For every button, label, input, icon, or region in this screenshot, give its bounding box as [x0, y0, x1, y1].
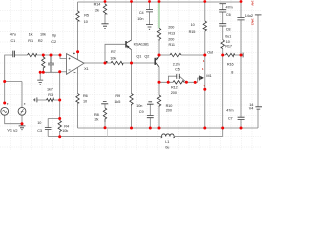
svg-text:10k: 10k: [40, 33, 46, 37]
svg-text:1: 1: [202, 67, 204, 71]
svg-text:C4: C4: [139, 11, 144, 15]
capacitor C9: [147, 102, 154, 118]
resistor R3: [47, 99, 54, 102]
svg-text:1k5: 1k5: [114, 100, 120, 104]
resistor R2: [42, 55, 45, 72]
svg-text:R8: R8: [94, 113, 99, 117]
svg-text:10n: 10n: [136, 104, 142, 108]
resistor R16: [226, 53, 235, 56]
node C9 bottom: [149, 127, 152, 130]
svg-text:R10: R10: [166, 104, 173, 108]
wire C6 C8 R17 column: [222, 4, 224, 55]
node R4 bottom: [58, 135, 61, 138]
svg-text:R2: R2: [38, 39, 43, 43]
svg-text:X1: X1: [84, 67, 88, 71]
node R14 top: [104, 0, 107, 3]
svg-text:10k: 10k: [62, 129, 68, 133]
node ground G1 junction: [39, 71, 42, 74]
node C2 top: [50, 54, 53, 57]
ground below C4: [146, 25, 153, 30]
svg-text:C3: C3: [37, 129, 42, 133]
node R16 left: [221, 54, 224, 57]
resistor R13: [157, 28, 160, 41]
svg-text:200: 200: [168, 38, 174, 42]
resistor R1: [28, 53, 37, 56]
svg-text:14V: 14V: [251, 0, 255, 6]
wire C4 stub: [149, 2, 151, 24]
wire rail A to rail B link: [107, 128, 109, 137]
wire inverting node vertical: [59, 72, 61, 119]
svg-text:R12: R12: [171, 85, 178, 89]
svg-text:200: 200: [166, 109, 172, 113]
svg-text:2.2n: 2.2n: [173, 62, 180, 66]
resistor R12: [173, 81, 184, 84]
svg-text:47m: 47m: [226, 109, 233, 113]
node cap14 bottom: [240, 127, 243, 130]
capacitor C7: [238, 117, 245, 119]
svg-text:R1: R1: [28, 39, 33, 43]
wire green highlighted net: [158, 3, 160, 29]
inductor L1: [161, 134, 175, 138]
capacitor C5: [177, 74, 180, 79]
node M1 bottom pin: [203, 88, 206, 91]
wire R11 row: [159, 54, 205, 56]
wire R14 stub: [104, 2, 106, 24]
svg-text:8: 8: [231, 70, 233, 74]
svg-text:47m: 47m: [226, 5, 233, 9]
svg-text:1k: 1k: [29, 33, 33, 37]
node green net top: [158, 0, 161, 3]
wire op-amp V- column through R6 to rail A: [77, 68, 79, 129]
node input tee at y81: [3, 80, 6, 83]
svg-text:+: +: [203, 84, 205, 88]
wire C5 bypass loop: [168, 76, 186, 82]
wire Q2 collector down: [158, 67, 160, 82]
svg-text:L1: L1: [165, 140, 169, 144]
node Q1 collector top: [130, 0, 133, 3]
node M1 column bottom: [203, 127, 206, 130]
node R15 top: [203, 0, 206, 3]
wire output column x222 to rail A: [222, 55, 224, 128]
wire R1 to node B and op-amp +in: [37, 55, 67, 59]
svg-text:R4: R4: [64, 124, 69, 128]
wire node to Q2 base: [132, 62, 155, 64]
wire R9 leads: [131, 63, 133, 128]
wire Q2 emitter to node: [158, 55, 160, 56]
svg-text:C5: C5: [175, 67, 180, 71]
wire R15 column: [204, 2, 206, 55]
node V1 top pin: [3, 102, 6, 105]
op-amp X1: [67, 53, 85, 75]
wire supply top bus: [78, 1, 242, 3]
voltage source V2: [18, 103, 26, 115]
svg-text:C6: C6: [226, 13, 231, 17]
node R2 bottom: [42, 71, 45, 74]
svg-text:R7: R7: [111, 50, 116, 54]
svg-text:M1: M1: [206, 74, 211, 78]
wire Q1 collector to top bus: [131, 2, 133, 40]
resistor R14: [103, 4, 106, 14]
svg-text:R11: R11: [169, 43, 175, 47]
resistor R15: [203, 21, 206, 31]
svg-text:C7: C7: [228, 117, 233, 121]
svg-text:200: 200: [168, 25, 174, 29]
svg-text:10: 10: [191, 23, 195, 27]
wire rail A negative bus: [78, 109, 259, 128]
svg-text:1: 1: [203, 59, 205, 63]
node C7 bottom: [221, 127, 224, 130]
wire R5 column to op-amp V+: [77, 2, 79, 60]
svg-text:V1: V1: [7, 129, 11, 133]
svg-text:Out: Out: [207, 51, 214, 55]
resistor R8: [103, 108, 106, 122]
capacitor C4: [146, 10, 153, 12]
wire C1 to R1: [15, 54, 28, 56]
node op-amp output: [104, 62, 107, 65]
wire R16 row: [223, 54, 243, 56]
node -in junction: [58, 70, 61, 73]
svg-text:R16: R16: [227, 63, 234, 67]
transistor Q2: [155, 56, 159, 67]
resistor R5: [76, 11, 79, 21]
wire V4 column: [257, 15, 259, 107]
svg-text:0p: 0p: [52, 34, 56, 38]
capacitor feedback end bar: [33, 97, 37, 102]
svg-text:R9: R9: [115, 94, 120, 98]
ground below R14: [101, 24, 108, 29]
svg-text:Q2: Q2: [144, 55, 149, 59]
node Q2 emitter R13: [158, 54, 161, 57]
capacitor 14u2: [237, 17, 244, 20]
resistor R10: [157, 95, 160, 107]
terminal bar V4 top: [255, 14, 262, 16]
resistor R6: [76, 94, 79, 104]
wire C7 column x241: [240, 2, 242, 128]
svg-text:10: 10: [37, 121, 41, 125]
resistor R11: [170, 53, 181, 56]
wire R4 stubs: [59, 119, 61, 137]
svg-text:10: 10: [84, 20, 88, 24]
node R10 bottom: [158, 127, 161, 130]
capacitor C6: [219, 10, 226, 12]
wire output to Q1 base: [105, 44, 126, 63]
wire input net V1 to C1: [5, 55, 13, 103]
wire C9 stem: [149, 104, 151, 128]
node feedback bottom: [58, 117, 61, 120]
wire R7 leads: [105, 62, 132, 64]
node R9 bottom: [130, 127, 133, 130]
wire R13 bottom lead: [158, 41, 160, 55]
resistor R17: [221, 40, 224, 49]
terminal tick right of R16 row: [242, 53, 244, 58]
node R12 row right: [194, 81, 197, 84]
ground near R2: [37, 80, 43, 85]
svg-text:2k: 2k: [95, 118, 99, 122]
node R16 right: [240, 54, 243, 57]
node R8 bottom: [104, 126, 107, 129]
svg-text:R6: R6: [83, 94, 88, 98]
svg-text:47u: 47u: [10, 33, 16, 37]
wire R3 row: [37, 99, 60, 101]
wire R2/C2 bottom row: [40, 72, 60, 80]
svg-text:R14: R14: [94, 2, 101, 6]
node R3 right: [58, 99, 61, 102]
node R11 right: [203, 54, 206, 57]
resistor R7: [111, 61, 123, 64]
svg-text:C9: C9: [139, 110, 144, 114]
net mark near R7: [106, 61, 108, 63]
svg-text:Q1: Q1: [136, 55, 141, 59]
svg-text:V2: V2: [13, 129, 17, 133]
svg-text:R3: R3: [48, 93, 53, 97]
svg-text:10k: 10k: [110, 57, 116, 61]
capacitor C1: [13, 51, 15, 58]
transistor Q1: [126, 40, 131, 50]
node cap14 top: [240, 0, 243, 3]
voltage source V1: [1, 103, 9, 115]
svg-text:0u1: 0u1: [225, 34, 231, 38]
node C5 left: [167, 81, 170, 84]
svg-text:C1: C1: [11, 39, 16, 43]
node R12 left: [158, 81, 161, 84]
wire op-amp output: [84, 62, 105, 64]
resistor R4: [58, 121, 61, 133]
svg-text:R17: R17: [225, 44, 232, 48]
wire R8 stem: [104, 104, 106, 128]
capacitor C3: [45, 128, 52, 130]
svg-text:14V2: 14V2: [251, 18, 255, 25]
node +in branch: [59, 54, 62, 57]
wire C3 branch: [48, 119, 60, 137]
svg-text:R13: R13: [168, 31, 175, 35]
wire R12 row: [159, 81, 198, 83]
node R7 right Q1 emitter: [130, 62, 133, 65]
svg-text:0u: 0u: [165, 146, 169, 150]
node C4 top: [148, 0, 151, 3]
wire ground rail B bottom: [48, 128, 223, 137]
node V1 V2 ground: [21, 122, 24, 125]
battery V4: [255, 107, 262, 109]
node R2 top: [42, 54, 45, 57]
svg-text:R15: R15: [189, 30, 196, 34]
wire Q1 emitter down to R7 node: [131, 49, 133, 63]
wire V1 bottom to V2 bottom and ground: [5, 115, 22, 126]
svg-text:C2: C2: [51, 40, 56, 44]
svg-text:10: 10: [83, 100, 87, 104]
svg-text:V4: V4: [249, 107, 253, 111]
wire M1 column: [204, 55, 206, 128]
terminal bar C6 top: [219, 3, 226, 5]
ground G2 below sources: [19, 126, 26, 130]
svg-text:R5: R5: [84, 13, 89, 17]
node op-amp V+ pin: [76, 50, 79, 53]
node C5 right: [185, 81, 188, 84]
capacitor C2: [48, 55, 54, 72]
svg-text:1k7: 1k7: [47, 87, 53, 91]
wire y81 V1 column to V2: [5, 82, 22, 108]
resistor R9: [130, 94, 133, 106]
svg-text:10n: 10n: [137, 17, 143, 21]
svg-text:C8: C8: [226, 27, 231, 31]
wire R10 leads: [158, 82, 160, 128]
svg-text:200: 200: [171, 91, 177, 95]
capacitor in series with R8: [101, 102, 108, 104]
svg-text:KSA1381: KSA1381: [134, 42, 149, 46]
wire op-amp -in: [60, 71, 67, 73]
capacitor C8: [219, 24, 226, 26]
svg-text:2k: 2k: [95, 9, 99, 13]
meter M1: [198, 76, 204, 83]
